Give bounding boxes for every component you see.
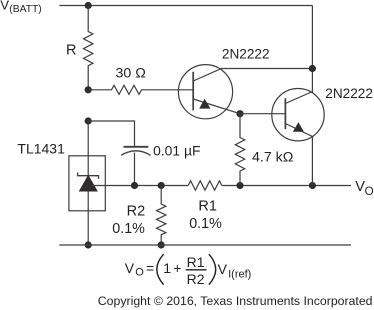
transistor Q1 collector lead <box>193 69 312 82</box>
svg-text:I(ref): I(ref) <box>228 269 251 281</box>
transistor Q1 emitter arrow <box>199 99 210 109</box>
wire REF / output net left <box>92 185 188 187</box>
label R1 <box>198 198 217 214</box>
label R2 <box>127 203 146 219</box>
transistor Q2 emitter arrow <box>293 122 304 132</box>
label 2N2222 Q2 <box>325 86 373 101</box>
wire anode to bottom rail <box>87 192 89 246</box>
transistor Q1 base bar <box>192 72 194 111</box>
resistor 4.7k <box>235 114 244 186</box>
svg-text:R2: R2 <box>187 271 205 287</box>
wire TL1431 cathode column <box>87 121 89 176</box>
svg-text:O: O <box>365 185 374 198</box>
resistor R1 <box>188 181 222 190</box>
transistor Q2 base bar <box>284 98 286 129</box>
transistor Q2 collector lead <box>285 92 312 104</box>
svg-text:30 Ω: 30 Ω <box>116 65 146 81</box>
transistor Q2 emitter lead <box>285 124 312 186</box>
TL1431 anode triangle <box>79 175 98 192</box>
label R <box>66 43 76 59</box>
svg-text:2N2222: 2N2222 <box>325 86 373 101</box>
svg-text:R2: R2 <box>127 203 146 219</box>
junction dot: node base drive <box>85 86 92 93</box>
junction dot: anode / bottom rail <box>85 241 92 248</box>
svg-text:R1: R1 <box>187 254 205 270</box>
junction dot: 4.7k bottom <box>236 182 243 189</box>
svg-text:4.7 kΩ: 4.7 kΩ <box>252 149 293 165</box>
transistor Q1 circle <box>178 65 232 119</box>
TL1431 U1 box <box>69 156 105 211</box>
label 30 ohm <box>116 65 146 81</box>
svg-text:TL1431: TL1431 <box>17 140 65 156</box>
resistor R <box>83 6 92 90</box>
wire cap branch <box>88 121 134 146</box>
TL1431 cathode bar <box>78 173 99 179</box>
net V(BATT) label <box>0 0 41 15</box>
transistor Q1 emitter lead <box>193 99 240 114</box>
label R2 tolerance 0.1% <box>112 221 145 237</box>
junction dot: Q2 emitter / output <box>309 182 316 189</box>
wire right collector bus <box>311 6 313 94</box>
junction dot: R2 bottom <box>158 241 165 248</box>
capacitor C 0.01uF <box>121 147 150 186</box>
svg-text:O: O <box>135 266 144 278</box>
svg-text:0.01 µF: 0.01 µF <box>153 143 200 159</box>
svg-text:2N2222: 2N2222 <box>222 46 270 61</box>
junction dot: cap bottom <box>131 182 138 189</box>
resistor R2 <box>157 186 166 246</box>
svg-text:0.1%: 0.1% <box>189 216 222 232</box>
svg-text:1: 1 <box>163 260 171 276</box>
copyright line <box>98 294 373 308</box>
svg-text:R1: R1 <box>198 198 217 214</box>
label 2N2222 Q1 <box>222 46 270 61</box>
junction dot: top rail / R <box>85 2 92 9</box>
svg-text:V: V <box>0 0 9 13</box>
svg-text:V: V <box>125 260 135 276</box>
label 0.01 uF <box>153 143 200 159</box>
wire bottom rail <box>59 244 351 246</box>
transistor Q2 circle <box>272 89 324 141</box>
equation VO = (1 + R1/R2) VI(ref) <box>125 254 252 287</box>
svg-text:(BATT): (BATT) <box>9 4 41 15</box>
svg-text:0.1%: 0.1% <box>112 221 145 237</box>
svg-text:V: V <box>218 261 228 277</box>
junction dot: Q1 emitter node <box>236 110 243 117</box>
svg-text:Copyright © 2016, Texas Instru: Copyright © 2016, Texas Instruments Inco… <box>98 294 373 308</box>
label R1 tolerance 0.1% <box>189 216 222 232</box>
junction dot: R2 top <box>158 182 165 189</box>
net VO label <box>355 179 373 198</box>
wire top rail <box>59 5 312 7</box>
label TL1431 <box>17 140 65 156</box>
svg-text:R: R <box>66 43 76 59</box>
svg-text:+: + <box>173 260 181 276</box>
svg-text:=: = <box>146 260 154 276</box>
label 4.7 kohm <box>252 149 293 165</box>
resistor 30 ohm + wire to Q1 base <box>88 85 193 94</box>
wire Q2 base lead <box>240 113 285 115</box>
junction dot: cap branch <box>85 117 92 124</box>
junction dot: collector bus <box>309 65 316 72</box>
wire output net right <box>222 185 351 187</box>
